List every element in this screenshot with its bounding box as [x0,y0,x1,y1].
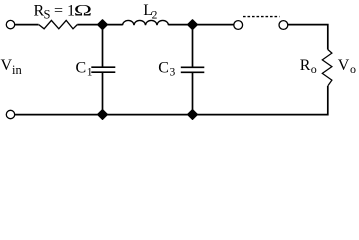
node B (top of C3) [188,20,198,29]
node bottom of C3 [188,110,198,119]
svg-text:o: o [350,62,356,76]
svg-text:R: R [300,57,311,74]
svg-text:V: V [338,57,350,74]
open terminal mid-left of ladder continuation [234,21,243,30]
capacitor C1 top lead [102,25,104,68]
resistor RS [39,20,78,28]
capacitor C3 top lead [192,25,194,68]
node A (top of C1) [98,20,108,29]
capacitor C1 plates [91,66,115,68]
wire inductor to node B [168,24,233,26]
svg-text:3: 3 [170,67,176,79]
svg-text:2: 2 [152,9,158,21]
output/input bottom-left terminal [6,110,14,118]
svg-text:V: V [1,57,13,74]
wire terminal to top-right corner [288,25,328,50]
wire resistor to node A [77,24,122,26]
wire terminal to resistor RS [15,24,39,26]
node bottom of C1 [98,110,108,119]
capacitor C3 bottom lead [192,72,194,114]
resistor Ro (vertical) [322,50,332,86]
svg-text:C: C [76,59,87,76]
svg-text:Ω: Ω [74,2,92,19]
svg-text:= 1: = 1 [54,2,75,19]
svg-text:S: S [44,7,51,21]
svg-text:C: C [158,59,169,76]
dashed continuation line [243,16,280,18]
open terminal mid-right of ladder continuation [279,21,288,30]
inductor L2 [123,20,169,25]
input terminal top-left [6,20,14,28]
wire Ro to bottom-right corner and bottom rail [15,86,328,115]
svg-text:in: in [12,63,22,77]
capacitor C1 bottom lead [102,72,104,114]
svg-text:o: o [311,62,317,76]
svg-text:1: 1 [87,67,93,79]
capacitor C3 plates [181,66,205,68]
